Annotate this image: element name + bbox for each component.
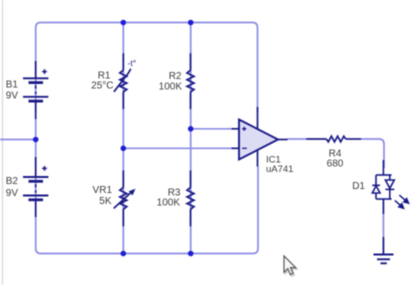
wire minus input (from R1/VR1 tap to op-amp) [123, 147, 232, 149]
svg-text:9V: 9V [6, 188, 19, 199]
resistor R1 (thermistor) [114, 53, 131, 109]
wire R2 column [190, 23, 192, 254]
wire D1 to ground [382, 199, 384, 254]
wire op-amp output to R4 and down to D1 [287, 139, 384, 168]
junction R2/R3 [188, 126, 194, 132]
wire R1 column [122, 23, 124, 254]
svg-text:uA741: uA741 [266, 164, 293, 175]
svg-text:VR1: VR1 [93, 185, 113, 196]
wire battery mid tap to left edge [0, 139, 36, 141]
svg-text:100K: 100K [157, 198, 181, 209]
mouse cursor [284, 256, 297, 276]
wire outer loop (top bus, left rail, bottom bus) [36, 23, 258, 254]
resistor R4 [306, 136, 361, 142]
svg-text:9V: 9V [6, 91, 19, 102]
battery B2 [23, 157, 48, 217]
junction bottom R3 [188, 251, 194, 257]
arrowhead VR1 [129, 189, 136, 196]
svg-text:25°C: 25°C [91, 81, 113, 92]
op-amp IC1 triangle [239, 120, 278, 160]
svg-text:-t°: -t° [128, 58, 137, 68]
junction battery mid [33, 137, 39, 143]
resistor VR1 (variable) [114, 170, 132, 226]
svg-text:B2: B2 [6, 176, 19, 187]
resistor R3 [187, 170, 194, 226]
pin - symbol [242, 147, 247, 149]
svg-text:100K: 100K [159, 81, 183, 92]
junction top R2 [188, 20, 194, 26]
diode D1 (bidirectional LED) [372, 160, 394, 214]
left panel edge line [2, 0, 4, 285]
op-amp IC1 output pin [278, 139, 288, 141]
battery B1 [23, 61, 48, 119]
svg-text:D1: D1 [352, 181, 365, 192]
svg-text:680: 680 [327, 159, 344, 170]
svg-text:B1: B1 [6, 80, 19, 91]
wire plus input (from R2/R3 tap to op-amp) [191, 128, 232, 130]
ground [374, 237, 394, 263]
LED light arrows [395, 195, 409, 208]
resistor R2 [187, 53, 194, 109]
op-amp IC1 power pins [257, 107, 259, 129]
pin + symbol [242, 127, 246, 131]
junction bottom VR1 [121, 251, 127, 257]
svg-text:5K: 5K [99, 196, 112, 207]
junction top R1 [121, 20, 127, 26]
junction R1/VR1 [121, 146, 127, 152]
op-amp IC1 input pins [232, 128, 241, 130]
